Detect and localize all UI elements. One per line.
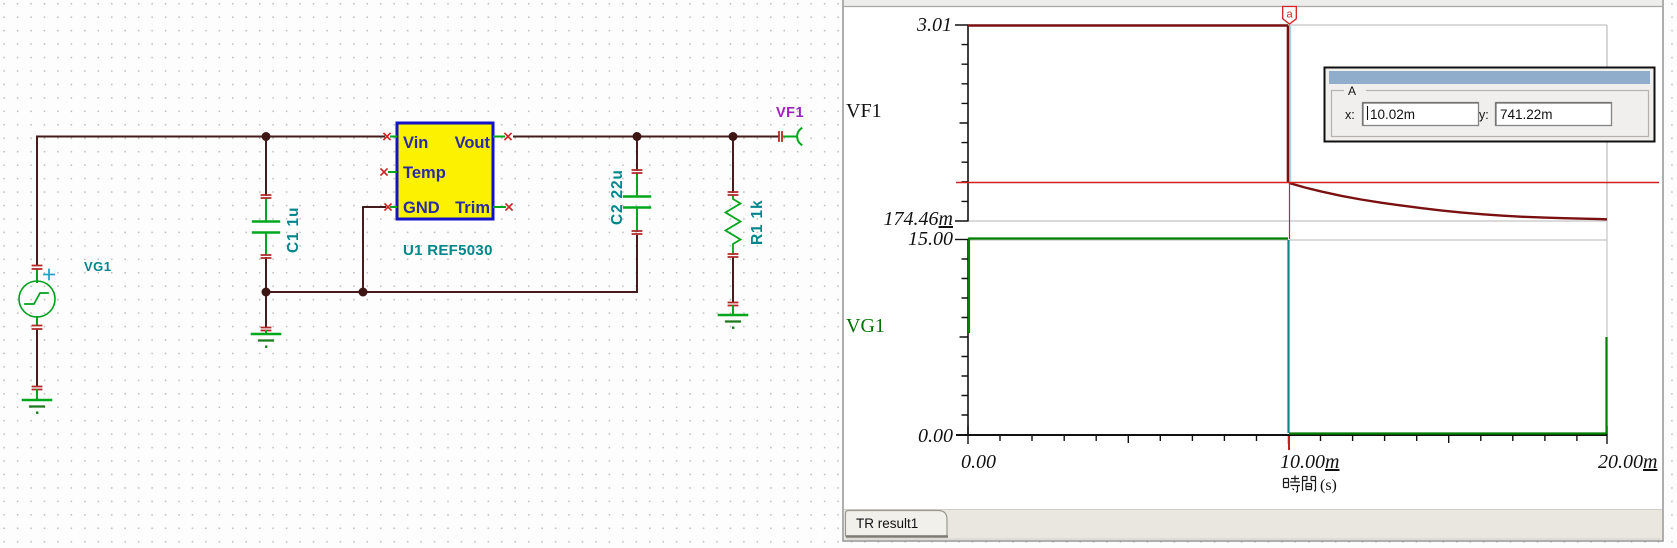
svg-text:0.00: 0.00 <box>961 451 996 473</box>
svg-text:VG1: VG1 <box>846 315 885 337</box>
svg-text:C2 22u: C2 22u <box>609 169 626 225</box>
C2 connection ticks <box>633 170 642 234</box>
junction node C2 top <box>633 132 642 141</box>
svg-text:VF1: VF1 <box>846 100 882 122</box>
U1 pin Vout label <box>455 134 491 152</box>
svg-text:TR result1: TR result1 <box>856 516 918 531</box>
tab bar <box>844 509 1662 540</box>
wire VG1 bottom to ground <box>36 330 38 386</box>
U1 pin Trim label <box>455 199 490 217</box>
R1 connection ticks <box>729 192 738 257</box>
U1 GND pin stub <box>385 204 396 210</box>
svg-text:174.46m: 174.46m <box>884 208 953 230</box>
x axis <box>956 426 1607 444</box>
VG1 label <box>84 259 112 274</box>
svg-text:C1 1u: C1 1u <box>285 207 302 253</box>
VF1 trace <box>968 26 1607 220</box>
cursor a vertical line (red segment) <box>1289 183 1291 239</box>
y axis label 174.46m <box>884 208 953 230</box>
ground ticks under VG1 <box>33 387 42 390</box>
C2 value label <box>609 169 626 225</box>
svg-text:R1 1k: R1 1k <box>749 200 766 245</box>
wire C1 bottom to node and ground <box>265 258 267 327</box>
wire Vout net to VF1 <box>514 136 778 138</box>
svg-text:Temp: Temp <box>403 164 446 182</box>
svg-text:GND: GND <box>403 199 440 217</box>
VG1 connection ticks top <box>33 266 42 270</box>
U1 pin GND label <box>403 199 440 217</box>
U1 pin Temp label <box>403 164 446 182</box>
U1 Temp pin stub <box>381 169 396 175</box>
ground under VG1 <box>23 390 51 414</box>
svg-text:741.22m: 741.22m <box>1500 107 1553 122</box>
bottom plot y ticks <box>955 240 968 416</box>
x axis label 20.00m <box>1598 451 1657 473</box>
wire C2 bottom <box>636 236 638 292</box>
wire bottom net C1 to C2 <box>266 291 637 293</box>
svg-text:10.02m: 10.02m <box>1370 107 1415 122</box>
cursor a vertical line below axis <box>1288 436 1290 450</box>
svg-text:Vin: Vin <box>403 134 428 152</box>
VG1 connection ticks bottom <box>33 326 42 330</box>
svg-text:3.01: 3.01 <box>916 14 952 36</box>
VF1 output pin ticks <box>779 132 782 141</box>
svg-text:15.00: 15.00 <box>908 228 953 250</box>
svg-text:20.00m: 20.00m <box>1598 451 1657 473</box>
tab TR result1 <box>846 511 949 537</box>
ground under C1 <box>252 331 280 348</box>
cursor readout panel <box>1325 68 1655 142</box>
ground ticks under C1 <box>262 328 271 331</box>
wire top net from VG1 to U1 Vin <box>37 137 384 266</box>
VF1 curve name label <box>846 100 882 122</box>
svg-text:VG1: VG1 <box>84 259 112 274</box>
svg-text:VF1: VF1 <box>776 105 804 121</box>
svg-text:a: a <box>1286 9 1293 21</box>
svg-text:x:: x: <box>1345 108 1355 122</box>
x axis label 10.00m <box>1280 451 1339 473</box>
ground under R1 <box>719 306 747 329</box>
U1 Trim pin stub <box>494 204 512 210</box>
svg-text:Vout: Vout <box>455 134 491 152</box>
C1 connection ticks <box>262 195 271 258</box>
y axis label 0.00 <box>918 425 953 447</box>
C1 value label <box>285 207 302 253</box>
y axis label 3.01 <box>916 14 952 36</box>
VG1 trace <box>968 238 1607 435</box>
svg-text:10.00m: 10.00m <box>1280 451 1339 473</box>
svg-text:y:: y: <box>1479 108 1489 122</box>
voltage source VG1 <box>19 270 55 326</box>
R1 value label <box>749 200 766 245</box>
svg-text:A: A <box>1348 84 1356 98</box>
cursor a vertical line (teal in VG1 plot) <box>1287 240 1289 433</box>
ground ticks under R1 <box>729 303 738 306</box>
junction node R1 top <box>729 132 738 141</box>
capacitor C1 <box>253 199 279 254</box>
y axis label 15.00 <box>908 228 953 250</box>
capacitor C2 <box>624 174 650 231</box>
cursor horizontal red line <box>956 182 1659 184</box>
wire R1 bottom to ground <box>732 258 734 302</box>
top plot frame (VF1) <box>968 25 1607 222</box>
cursor a vertical line (cyan above intersection) <box>1289 25 1291 182</box>
wire R1 top <box>732 137 734 193</box>
VF1 label <box>776 105 804 121</box>
svg-text:U1 REF5030: U1 REF5030 <box>403 242 493 259</box>
svg-text:0.00: 0.00 <box>918 425 953 447</box>
junction node GND net <box>359 288 368 297</box>
wire C1 top <box>265 137 267 196</box>
wire C2 top <box>636 137 638 171</box>
wire U1 GND to bottom net <box>363 207 385 292</box>
x axis label 0.00 <box>961 451 996 473</box>
cursor flag a <box>1283 7 1297 25</box>
U1 reference label <box>403 242 493 259</box>
VF1 probe symbol <box>784 128 801 144</box>
top plot y ticks <box>955 25 968 221</box>
junction node C1 bottom <box>262 288 271 297</box>
IC U1 REF5030 body <box>397 123 493 219</box>
svg-text:Trim: Trim <box>455 199 490 217</box>
bottom plot frame (VG1) <box>968 25 1607 435</box>
window body <box>843 0 1663 541</box>
VG1 curve name label <box>846 315 885 337</box>
resistor R1 <box>726 196 741 254</box>
U1 Vout pin stub <box>494 134 511 140</box>
U1 Vin pin stub <box>384 134 396 140</box>
x axis title 時間 (s) <box>1284 476 1337 495</box>
junction node C1 top <box>262 132 271 141</box>
svg-text:(s): (s) <box>1320 477 1337 494</box>
U1 pin Vin label <box>403 134 428 152</box>
